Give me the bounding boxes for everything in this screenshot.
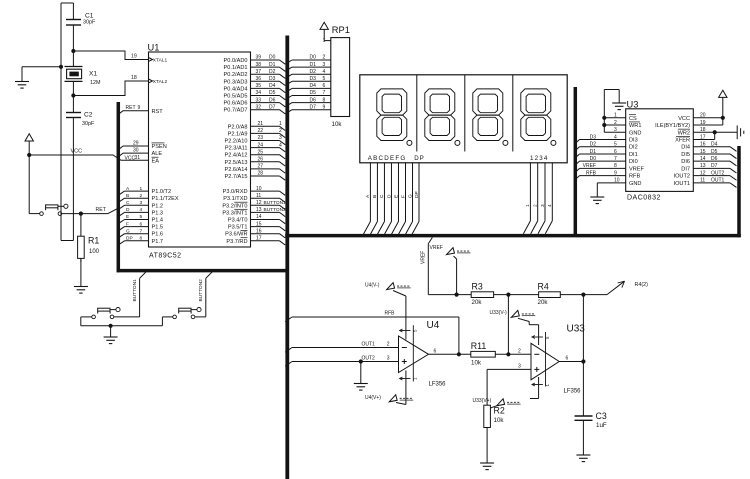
svg-text:29: 29 bbox=[133, 140, 139, 146]
IC U1 AT89C52 body bbox=[149, 52, 251, 247]
wire ALE from bus bbox=[118, 153, 123, 157]
svg-text:GND: GND bbox=[629, 181, 641, 187]
svg-text:D7: D7 bbox=[711, 163, 718, 169]
svg-text:3: 3 bbox=[540, 204, 546, 207]
svg-text:P2.6/A14: P2.6/A14 bbox=[224, 167, 247, 173]
wire U3 CS pin1 tie bbox=[604, 117, 625, 119]
svg-text:3: 3 bbox=[323, 62, 326, 68]
node U3 VCC junction bbox=[721, 116, 725, 120]
wire RP1 pin 5 net D3 bbox=[285, 81, 292, 85]
label C2 value 30pF bbox=[82, 112, 95, 128]
wire display segment D to bus bbox=[390, 163, 392, 222]
display digit separators bbox=[416, 75, 418, 152]
ground above U3 bbox=[618, 90, 620, 104]
svg-text:VCC: VCC bbox=[71, 149, 83, 155]
svg-text:AT89C52: AT89C52 bbox=[149, 253, 182, 260]
wire U1 pin P0.6 to bus net D6 bbox=[251, 102, 280, 104]
wire display segment B to bus bbox=[376, 163, 378, 222]
node R4 right junction bbox=[581, 293, 585, 297]
wire XTAL1 to U1 pin 19 bbox=[73, 51, 148, 60]
wire U3 XFER pin17 join WR2 bbox=[693, 138, 714, 140]
wire U1 pin P1.0 net A bbox=[118, 191, 124, 195]
svg-text:DAC0832: DAC0832 bbox=[627, 195, 661, 202]
U1 pin XTAL1 with input mark bbox=[149, 58, 153, 62]
svg-text:BUTTON1: BUTTON1 bbox=[132, 279, 138, 302]
wire U3 pin 14 net D6 to bus bbox=[693, 160, 730, 162]
svg-text:10k: 10k bbox=[494, 417, 505, 424]
op-amp U4 triangle bbox=[399, 336, 429, 373]
svg-text:D6: D6 bbox=[310, 97, 317, 103]
node button common junction bbox=[109, 324, 113, 328]
svg-text:P2.5/A13: P2.5/A13 bbox=[224, 160, 247, 166]
svg-text:D3: D3 bbox=[269, 76, 276, 82]
svg-text:9: 9 bbox=[138, 105, 141, 111]
node ground tap bbox=[59, 65, 63, 69]
U33 offset line and pin5 mark bbox=[545, 332, 547, 387]
wire U1 pin P1.4 net E bbox=[118, 220, 124, 224]
wire RST from bus with RET9 label bbox=[118, 111, 123, 115]
label X1 value 12M bbox=[89, 71, 101, 87]
svg-text:8: 8 bbox=[140, 236, 143, 242]
svg-text:3: 3 bbox=[140, 200, 143, 206]
wire feedback node down to U33 input bbox=[507, 295, 509, 354]
svg-text:P1.1/T2EX: P1.1/T2EX bbox=[152, 196, 179, 202]
svg-text:OUT1: OUT1 bbox=[362, 342, 376, 348]
svg-text:XTAL2: XTAL2 bbox=[153, 79, 168, 85]
resistor R4 bbox=[539, 292, 561, 298]
wire RP1 pin 9 net D7 bbox=[285, 110, 292, 114]
svg-text:5: 5 bbox=[140, 214, 143, 220]
display digit 2 decimal point bbox=[455, 140, 460, 145]
svg-text:E: E bbox=[126, 214, 129, 220]
svg-text:D1: D1 bbox=[269, 62, 276, 68]
node OUT2 ground junction bbox=[359, 359, 363, 363]
wire R11 to U33 pin2 bbox=[495, 353, 531, 355]
svg-text:ALE: ALE bbox=[152, 151, 163, 157]
wire RP1 pin 4 net D2 bbox=[285, 74, 292, 78]
svg-text:6: 6 bbox=[434, 348, 437, 354]
svg-text:DI5: DI5 bbox=[681, 152, 690, 158]
resistor R1 bbox=[78, 214, 85, 262]
svg-text:P3.0/RXD: P3.0/RXD bbox=[223, 189, 248, 195]
wire VCC to U1 EA pin 31 bbox=[29, 155, 148, 160]
node U3 pin2 junction bbox=[602, 123, 606, 127]
svg-text:RET: RET bbox=[126, 105, 136, 111]
svg-text:24: 24 bbox=[258, 142, 264, 148]
svg-text:1uF: 1uF bbox=[596, 422, 607, 429]
svg-text:2: 2 bbox=[323, 55, 326, 61]
svg-text:U4(V+): U4(V+) bbox=[365, 395, 381, 401]
svg-text:RP1: RP1 bbox=[332, 25, 350, 35]
svg-text:DI6: DI6 bbox=[681, 159, 690, 165]
svg-text:D4: D4 bbox=[711, 142, 718, 148]
svg-text:U33(V+): U33(V+) bbox=[473, 398, 492, 404]
svg-text:VREF: VREF bbox=[583, 163, 596, 169]
svg-text:U33(V-): U33(V-) bbox=[490, 310, 508, 316]
wire U3 WR2 pin18 to ground right bbox=[693, 131, 737, 133]
svg-text:20k: 20k bbox=[538, 299, 549, 306]
display digit 1 segments bbox=[377, 89, 407, 141]
svg-text:VREF: VREF bbox=[629, 166, 645, 172]
wire U4 output to R11 bbox=[429, 353, 471, 355]
svg-text:3: 3 bbox=[387, 356, 390, 362]
wire display digit select 1 to bus bbox=[529, 163, 531, 221]
svg-text:P0.6/AD6: P0.6/AD6 bbox=[224, 101, 248, 107]
node U3 XFER junction bbox=[713, 130, 717, 134]
svg-text:4: 4 bbox=[547, 204, 553, 207]
svg-text:P2.1/A9: P2.1/A9 bbox=[228, 131, 248, 137]
wire BUTTON1 net from bus bbox=[140, 271, 147, 278]
svg-text:26: 26 bbox=[258, 157, 264, 163]
svg-text:DI1: DI1 bbox=[629, 152, 638, 158]
svg-text:DI2: DI2 bbox=[629, 145, 638, 151]
wire VREF from bus bbox=[428, 237, 432, 243]
wire display segment E to bus bbox=[397, 163, 399, 222]
wire RP1 pin 2 net D0 bbox=[285, 60, 292, 64]
wire display digit select 2 to bus bbox=[537, 163, 539, 221]
bus H2 horizontal mid bbox=[285, 234, 741, 238]
svg-text:D2: D2 bbox=[310, 69, 317, 75]
svg-text:14: 14 bbox=[256, 214, 262, 220]
svg-text:WR2: WR2 bbox=[678, 130, 690, 136]
svg-text:6: 6 bbox=[566, 356, 569, 362]
button BUTTON1 switch bbox=[92, 308, 120, 319]
button BUTTON2 switch bbox=[173, 308, 201, 319]
svg-text:D5: D5 bbox=[269, 90, 276, 96]
svg-text:BUTTON2: BUTTON2 bbox=[264, 207, 287, 213]
wire U3 pin 12 net OUT2 to bus bbox=[693, 175, 730, 177]
wire U1 pin P0.3 to bus net D3 bbox=[251, 80, 280, 82]
svg-text:RFB: RFB bbox=[586, 170, 597, 176]
svg-text:RFB: RFB bbox=[629, 174, 640, 180]
wire U3 WR1 pin2 tie bbox=[604, 124, 625, 126]
svg-text:D7: D7 bbox=[269, 104, 276, 110]
bus V0 left vertical bbox=[117, 102, 121, 272]
wire U1 pin P3.6 to bus bbox=[251, 233, 280, 235]
svg-text:36: 36 bbox=[256, 76, 262, 82]
svg-text:P0.0/AD0: P0.0/AD0 bbox=[224, 58, 248, 64]
svg-text:B: B bbox=[126, 193, 129, 199]
svg-text:100: 100 bbox=[89, 249, 100, 255]
wire U33 pin3 to R2 bbox=[487, 368, 531, 370]
svg-text:P2.3/A11: P2.3/A11 bbox=[225, 146, 248, 152]
node XTAL1 junction bbox=[71, 49, 75, 53]
bus V1 main vertical bbox=[285, 36, 289, 479]
wire U3 pin 4 net D3 from bus bbox=[575, 139, 579, 143]
svg-text:19: 19 bbox=[131, 54, 137, 60]
svg-text:17: 17 bbox=[256, 236, 262, 242]
wire PSEN from bus bbox=[118, 146, 123, 150]
power VCC arrow bbox=[25, 134, 33, 141]
wire U3 pin 5 net D2 from bus bbox=[575, 147, 579, 151]
svg-text:XTAL1: XTAL1 bbox=[153, 57, 168, 63]
svg-text:2: 2 bbox=[518, 348, 521, 354]
svg-text:DI4: DI4 bbox=[681, 145, 690, 151]
svg-text:D2: D2 bbox=[590, 142, 597, 148]
svg-text:C2: C2 bbox=[84, 112, 93, 119]
wire U3 GND pin3 riser to ground bbox=[604, 131, 625, 133]
svg-text:1: 1 bbox=[140, 186, 143, 192]
wire U1 pin P2.4 to bus bbox=[251, 154, 280, 156]
wire RP1 pin 6 net D4 bbox=[285, 88, 292, 92]
wire U3 pin 8 net VREF from bus bbox=[575, 168, 579, 172]
wire U1 pin P1.2 net C bbox=[118, 205, 124, 209]
svg-text:C: C bbox=[379, 194, 385, 198]
svg-text:D5: D5 bbox=[711, 149, 718, 155]
svg-text:35: 35 bbox=[256, 83, 262, 89]
svg-text:P3.1/TXD: P3.1/TXD bbox=[223, 196, 247, 202]
svg-text:G: G bbox=[126, 228, 130, 234]
svg-text:RET: RET bbox=[96, 207, 107, 213]
wire U1 pin P2.0 to bus bbox=[251, 125, 280, 127]
svg-text:D: D bbox=[386, 194, 392, 198]
svg-text:21: 21 bbox=[258, 121, 264, 127]
wire oscillator right rail top bbox=[72, 3, 74, 20]
svg-text:13: 13 bbox=[256, 207, 262, 213]
wire U1 pin P3.1 to bus bbox=[251, 197, 280, 199]
svg-text:6: 6 bbox=[140, 221, 143, 227]
svg-text:D3: D3 bbox=[310, 76, 317, 82]
button RET switch bbox=[40, 204, 68, 215]
wire button to RET net bbox=[62, 213, 108, 215]
svg-text:2: 2 bbox=[140, 193, 143, 199]
svg-text:DI0: DI0 bbox=[629, 159, 638, 165]
svg-text:U33: U33 bbox=[567, 324, 586, 335]
svg-text:P0.7/AD7: P0.7/AD7 bbox=[224, 108, 248, 114]
wire U1 pin P3.0 to bus bbox=[251, 190, 280, 192]
wire RP1 pin 3 net D1 bbox=[285, 67, 292, 71]
svg-text:ABCDEFG: ABCDEFG bbox=[368, 155, 407, 162]
label R4 value 20k bbox=[538, 281, 549, 306]
resistor R11 bbox=[471, 351, 496, 357]
svg-text:R2: R2 bbox=[494, 406, 505, 416]
wire crystal to C2 bbox=[72, 81, 74, 112]
svg-text:28: 28 bbox=[258, 171, 264, 177]
svg-text:7: 7 bbox=[140, 228, 143, 234]
svg-text:D6: D6 bbox=[711, 156, 718, 162]
svg-text:30pF: 30pF bbox=[82, 121, 95, 127]
ground below R2 bbox=[480, 462, 494, 464]
power VCC arrow at RP1 bbox=[320, 22, 328, 29]
node R3 R4 junction bbox=[506, 293, 510, 297]
wire U3 pin 9 net RFB from bus bbox=[575, 176, 579, 180]
U4 bottom pin1 mark bbox=[400, 378, 411, 380]
label R2 value 10k bbox=[494, 406, 505, 425]
svg-text:10: 10 bbox=[256, 186, 262, 192]
wire U3 pin 7 net D0 from bus bbox=[575, 161, 579, 165]
svg-text:P3.4/T0: P3.4/T0 bbox=[228, 218, 248, 224]
svg-text:P0.3/AD3: P0.3/AD3 bbox=[224, 79, 248, 85]
label R1 value 100 bbox=[88, 236, 100, 256]
wire display segment G to bus bbox=[412, 163, 414, 222]
svg-text:F: F bbox=[400, 195, 406, 198]
bus V2 vertical left of U3 bbox=[574, 87, 578, 236]
wire display segment A to bus bbox=[369, 163, 371, 222]
svg-text:IOUT1: IOUT1 bbox=[674, 181, 690, 187]
svg-text:38: 38 bbox=[256, 62, 262, 68]
svg-text:P2.2/A10: P2.2/A10 bbox=[224, 139, 247, 145]
svg-text:39: 39 bbox=[256, 55, 262, 61]
wire U3 pin 13 net D7 to bus bbox=[693, 167, 730, 169]
svg-text:22: 22 bbox=[258, 128, 264, 134]
wire display digit select 4 to bus bbox=[551, 163, 553, 221]
wire RP1 pin 1 bbox=[324, 40, 331, 42]
svg-text:P1.4: P1.4 bbox=[152, 218, 164, 224]
wire R3 to R4 bbox=[494, 294, 539, 296]
svg-text:P1.7: P1.7 bbox=[152, 239, 164, 245]
svg-text:U1: U1 bbox=[148, 43, 160, 53]
wire U1 pin P1.1 net B bbox=[118, 198, 124, 202]
wire U1 pin P2.5 to bus bbox=[251, 161, 280, 163]
svg-text:P0.4/AD4: P0.4/AD4 bbox=[224, 86, 248, 92]
svg-text:U4: U4 bbox=[427, 320, 440, 331]
svg-text:B: B bbox=[372, 195, 378, 198]
svg-text:DP: DP bbox=[414, 191, 420, 198]
resistor R2 bbox=[484, 405, 491, 427]
svg-text:10k: 10k bbox=[332, 121, 343, 128]
svg-text:32: 32 bbox=[256, 104, 262, 110]
wire BUTTON2 net to bus bbox=[195, 316, 206, 318]
wire display segment F to bus bbox=[405, 163, 407, 222]
svg-text:P2.0/A8: P2.0/A8 bbox=[228, 124, 248, 130]
svg-text:XFER: XFER bbox=[675, 137, 690, 143]
svg-text:5: 5 bbox=[323, 76, 326, 82]
wire U1 pin P3.5 to bus bbox=[251, 226, 280, 228]
svg-text:3: 3 bbox=[279, 135, 282, 141]
wire XTAL2 to U1 pin 18 bbox=[73, 81, 148, 96]
wire U1 pin P2.3 to bus bbox=[251, 147, 280, 149]
wire U1 pin P3.7 to bus bbox=[251, 240, 280, 242]
svg-text:DP: DP bbox=[414, 155, 425, 162]
svg-text:P3.2/INT0: P3.2/INT0 bbox=[222, 203, 247, 209]
svg-text:P3.7/RD: P3.7/RD bbox=[226, 239, 247, 245]
svg-text:D0: D0 bbox=[310, 55, 317, 61]
wire U3 GND pin10 to ground bbox=[597, 182, 625, 184]
svg-text:BUTTON1: BUTTON1 bbox=[264, 200, 287, 206]
svg-text:C: C bbox=[126, 200, 130, 206]
svg-text:37: 37 bbox=[256, 69, 262, 75]
wire U33 output bbox=[560, 361, 584, 363]
svg-text:X1: X1 bbox=[89, 71, 97, 78]
svg-text:GND: GND bbox=[629, 130, 641, 136]
svg-text:F: F bbox=[126, 221, 129, 227]
svg-text:9: 9 bbox=[323, 104, 326, 110]
svg-text:WR1: WR1 bbox=[629, 123, 641, 129]
power VCC arrow at U3 bbox=[719, 90, 727, 97]
svg-text:30: 30 bbox=[133, 147, 139, 153]
svg-text:4: 4 bbox=[140, 207, 143, 213]
wire output node down to U33 output and C3 bbox=[582, 295, 584, 416]
wire U3 ILE pin19 bbox=[693, 124, 723, 126]
svg-text:D: D bbox=[126, 207, 130, 213]
svg-text:23: 23 bbox=[258, 135, 264, 141]
svg-text:2: 2 bbox=[387, 342, 390, 348]
svg-text:DI3: DI3 bbox=[629, 137, 638, 143]
label C3 value 1uF bbox=[596, 411, 607, 429]
svg-text:D4: D4 bbox=[310, 83, 317, 89]
svg-text:VREF: VREF bbox=[421, 251, 427, 264]
svg-text:IOUT2: IOUT2 bbox=[674, 174, 690, 180]
wire RFB net from bus bbox=[285, 317, 292, 322]
svg-text:3: 3 bbox=[518, 364, 521, 370]
wire U3 pin 6 net D1 from bus bbox=[575, 154, 579, 158]
svg-text:10k: 10k bbox=[471, 359, 482, 366]
ground at U4 pin3 bbox=[360, 362, 362, 384]
U4 offset line and pin5 mark bbox=[412, 325, 414, 381]
display digit 2 segments bbox=[425, 89, 455, 141]
wire U1 pin P2.1 to bus bbox=[251, 132, 280, 134]
svg-text:D0: D0 bbox=[590, 156, 597, 162]
svg-text:C1: C1 bbox=[85, 13, 94, 20]
node U33 output junction bbox=[581, 359, 585, 363]
svg-text:D1: D1 bbox=[590, 149, 597, 155]
svg-text:E: E bbox=[393, 195, 399, 198]
svg-text:2: 2 bbox=[279, 128, 282, 134]
svg-text:D4: D4 bbox=[269, 83, 276, 89]
ground below R1 bbox=[80, 258, 82, 286]
svg-text:16: 16 bbox=[256, 228, 262, 234]
svg-text:34: 34 bbox=[256, 90, 262, 96]
svg-text:20k: 20k bbox=[472, 299, 483, 306]
svg-text:P1.5: P1.5 bbox=[152, 225, 164, 231]
svg-text:P1.0/T2: P1.0/T2 bbox=[152, 189, 172, 195]
display digit 4 segments bbox=[521, 89, 551, 141]
svg-text:P2.7/A15: P2.7/A15 bbox=[224, 174, 247, 180]
wire U1 pin P3.3 to bus bbox=[251, 211, 280, 213]
svg-text:CS: CS bbox=[629, 116, 637, 122]
node RET junction bbox=[79, 212, 83, 216]
wire R4 to output node bbox=[560, 294, 607, 296]
arrow R4(2) off-page bbox=[607, 281, 625, 294]
wire oscillator loop left rail bbox=[60, 3, 62, 241]
display digit 3 decimal point bbox=[503, 140, 508, 145]
svg-text:DI7: DI7 bbox=[681, 166, 690, 172]
resistor pack RP1 body bbox=[331, 38, 350, 117]
wire U1 pin P0.0 to bus net D0 bbox=[251, 59, 280, 61]
power flag VREF bbox=[447, 248, 455, 255]
crystal X1 bbox=[65, 51, 83, 81]
svg-text:R1: R1 bbox=[88, 236, 99, 246]
U33 V- stub bbox=[538, 377, 540, 399]
svg-text:31: 31 bbox=[135, 155, 141, 161]
svg-text:G: G bbox=[407, 194, 413, 198]
svg-text:P1.2: P1.2 bbox=[152, 203, 164, 209]
ground right-facing at U3 WR2 bbox=[736, 125, 738, 139]
display digit 1 decimal point bbox=[407, 140, 412, 145]
wire U1 pin P0.5 to bus net D5 bbox=[251, 95, 280, 97]
wire VCC down to reset button bbox=[28, 155, 30, 214]
svg-text:D1: D1 bbox=[310, 62, 317, 68]
svg-text:DP: DP bbox=[126, 236, 133, 242]
svg-text:D0: D0 bbox=[269, 55, 276, 61]
U33 input polarity marks bbox=[534, 353, 539, 355]
resistor R3 bbox=[471, 292, 493, 298]
svg-text:EA: EA bbox=[152, 158, 160, 164]
ground oscillator bbox=[15, 67, 61, 88]
bus H1 horizontal under U1 bbox=[117, 269, 289, 273]
svg-text:2: 2 bbox=[533, 204, 539, 207]
display digit 3 segments bbox=[473, 89, 503, 141]
svg-text:P3.5/T1: P3.5/T1 bbox=[228, 225, 248, 231]
svg-text:7: 7 bbox=[323, 90, 326, 96]
svg-text:RFB: RFB bbox=[385, 311, 396, 317]
svg-text:U4(V-): U4(V-) bbox=[365, 282, 380, 288]
svg-text:P3.3/INT1: P3.3/INT1 bbox=[222, 210, 247, 216]
wire U3 pin 11 net OUT1 to bus bbox=[693, 182, 730, 184]
wire U3 VCC pin20 bbox=[693, 117, 723, 119]
svg-text:OUT2: OUT2 bbox=[362, 356, 376, 362]
svg-text:25: 25 bbox=[258, 149, 264, 155]
